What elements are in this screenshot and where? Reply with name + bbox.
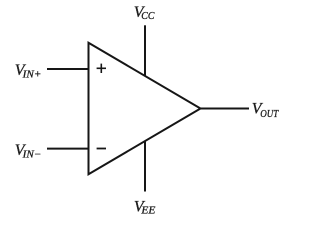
minus sign (inverting input marker) [97,148,106,150]
svg-text:CC: CC [141,11,155,22]
wire V_IN+ input [47,68,89,70]
label V_CC [134,4,156,22]
op-amp U1 [89,43,201,174]
plus sign (non-inverting input marker) [97,64,106,73]
svg-text:IN+: IN+ [22,69,42,80]
svg-text:EE: EE [140,205,156,216]
wire V_IN- input [47,148,89,150]
label V_IN- [15,142,42,160]
wire V_EE supply [144,141,146,192]
svg-text:OUT: OUT [260,109,279,120]
label V_IN+ [15,62,42,80]
wire V_CC supply [144,25,146,76]
svg-text:IN−: IN− [22,149,42,160]
wire V_OUT output [201,108,250,110]
label V_EE [134,198,156,216]
label V_OUT [252,101,279,120]
